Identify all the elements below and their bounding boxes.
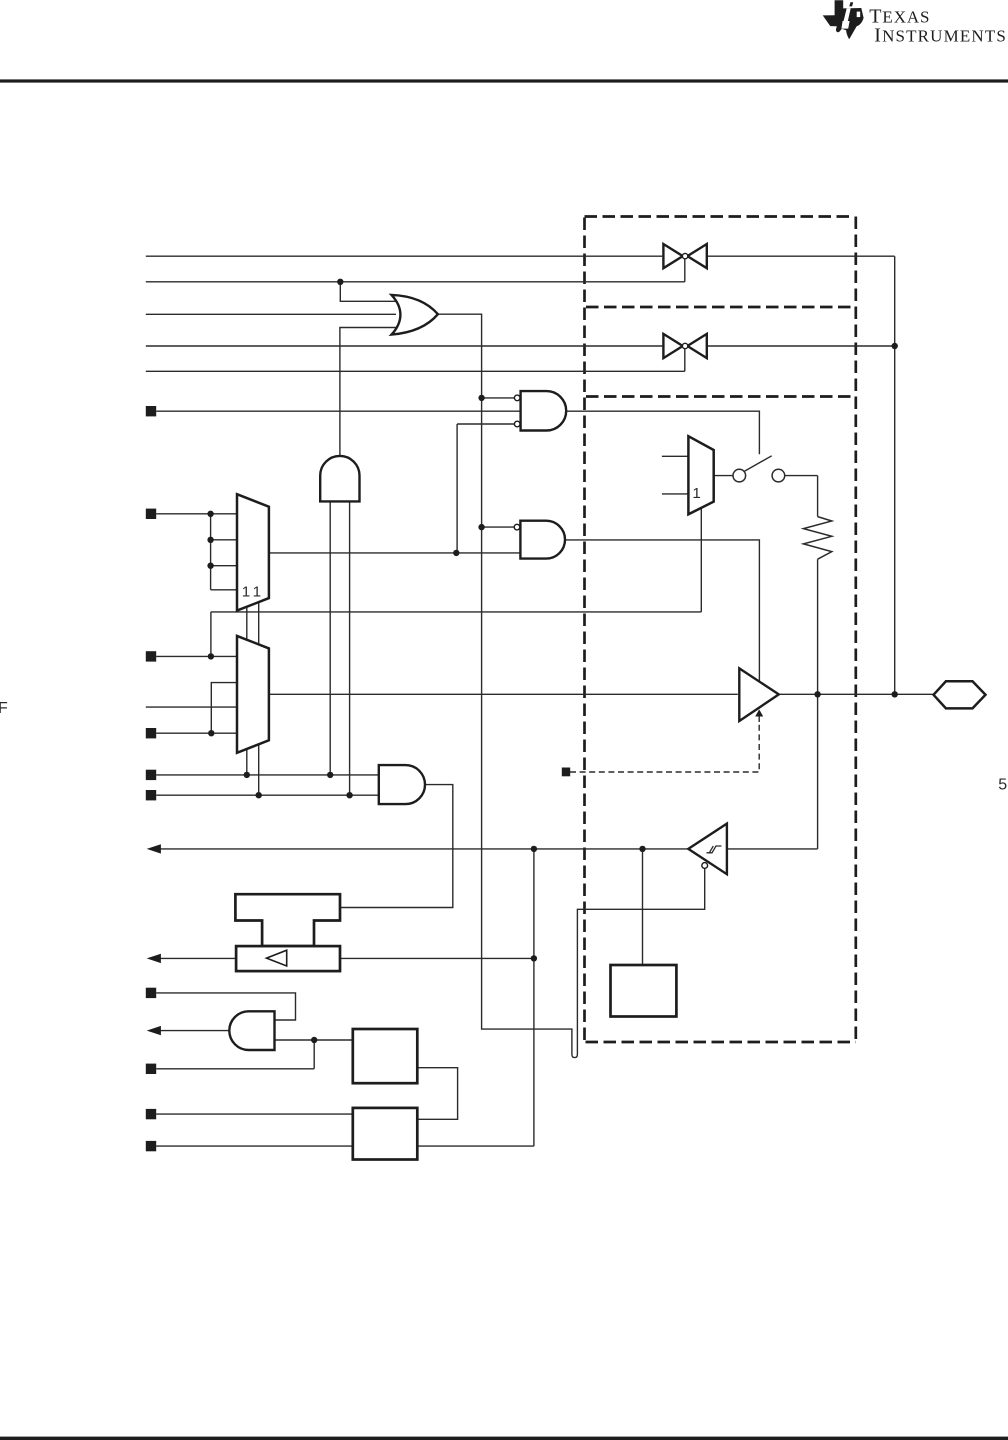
junction dot mux2 in1 <box>208 653 214 659</box>
input pin square y795.2 <box>146 790 156 800</box>
wire TG1 input line <box>146 255 663 257</box>
wire mux2 to pin-line cascade right <box>258 744 260 795</box>
wire smallmux output to switch contact <box>714 475 733 477</box>
NAND gate U1 (3-input, 2 bubbled) <box>521 391 567 430</box>
dashed box bottom edge <box>586 1041 856 1044</box>
svg-text:1: 1 <box>242 583 250 600</box>
wire switch contact2 to resistor <box>785 476 818 517</box>
wire mux select line y611.9 <box>211 508 701 656</box>
junction dot NAND1 upper input <box>478 395 484 401</box>
top horizontal rule <box>0 79 1008 82</box>
wire mux2 input4 from pin <box>156 732 237 734</box>
wire AND3 output to arrow <box>158 1030 229 1032</box>
tall AND gate G2 (rotated up) <box>320 456 359 501</box>
U2 input bubble <box>514 524 520 530</box>
wire NAND1 output to switch <box>566 411 759 454</box>
wire tall-AND input B <box>349 501 351 795</box>
switch contact circle 2 <box>772 469 785 482</box>
wire pin y992.9 to AND3 input1 <box>156 993 295 1020</box>
transmission gate TG1 <box>663 244 706 268</box>
junction dot right bus at pad line <box>892 691 898 697</box>
schmitt hysteresis glyph <box>707 846 722 853</box>
junction dot pinline795 b <box>346 792 352 798</box>
input pin square y513.8 <box>146 509 156 519</box>
wire TG2 input line <box>146 345 663 347</box>
wire schmitt input from resistor bus <box>727 559 817 849</box>
wire mux2 to pin-line cascade left <box>246 749 248 775</box>
triangle box (delay cell) <box>236 946 340 971</box>
slew control arrowhead <box>755 709 763 716</box>
triangle glyph inside delay cell <box>267 950 287 966</box>
wire y958.4 right to vertical bus <box>340 957 534 959</box>
junction dot receive line x533.9 <box>531 846 537 852</box>
wire OR input2 line <box>146 313 396 315</box>
block B1 <box>353 1029 418 1083</box>
bottom horizontal rule <box>0 1437 1008 1440</box>
wire F input line <box>146 706 237 708</box>
wire receive output line y848.9 <box>158 848 688 850</box>
junction dot control tap <box>337 279 343 285</box>
output buffer amp U3 <box>739 668 779 721</box>
junction dot pinline795 a <box>256 792 262 798</box>
wire pin line y774.9 <box>156 774 379 776</box>
wire TG1 output to right drop <box>708 255 895 257</box>
input pin square y774.9 <box>146 770 156 780</box>
wire pin line y795.2 <box>156 794 379 796</box>
wire OR input1 from control line tap <box>340 282 397 302</box>
wire box1-box2 connector <box>417 1068 457 1120</box>
svg-text:F: F <box>0 700 8 717</box>
wire tall-AND output to OR input3 <box>340 328 397 456</box>
dashed box right edge <box>854 217 857 1043</box>
wire NAND1 input1 <box>482 397 515 399</box>
input pin square y1114.1 <box>146 1109 156 1119</box>
OR gate G1 (3-input) <box>392 295 438 335</box>
wire mux1 input1 from pin <box>156 513 237 515</box>
junction dot mux1 chain 1 <box>207 511 213 517</box>
output arrow y958.4 <box>147 954 161 963</box>
wire mux2 bracket input2 <box>211 683 237 734</box>
junction dot pinline775 a <box>244 772 250 778</box>
svg-text:5: 5 <box>998 776 1007 793</box>
wire TG2 gate control line <box>146 349 685 372</box>
wire smallmux input stubs <box>662 456 689 494</box>
wire small box stem <box>642 849 644 965</box>
wire mux1-mux2 cascade right <box>258 602 260 644</box>
mux M1 parallelogram <box>237 494 269 610</box>
junction dot NAND2 upper input <box>478 524 484 530</box>
wire buffer output to pad <box>780 693 934 695</box>
input pin square y992.9 <box>146 988 156 998</box>
wire mux2 input1 from pin <box>156 655 237 657</box>
wire mux2 output to buffer input <box>269 693 738 695</box>
wire mux1 input chain <box>211 514 237 590</box>
wire switch lever <box>744 456 772 472</box>
junction dot mux1 chain 2 <box>207 537 213 543</box>
buffer slew control dashed wire <box>570 716 759 772</box>
slew control source square <box>562 768 570 777</box>
T-block (driver symbol) <box>235 894 340 946</box>
wire NAND1 input3 <box>457 424 514 553</box>
junction dot NAND2 lower input <box>453 550 459 556</box>
wire OR output long vertical to schmitt-enable <box>438 314 705 1057</box>
block B3 (in dashed box) <box>611 965 677 1017</box>
transmission gate TG2 <box>663 334 706 358</box>
dashed box top edge <box>585 215 854 218</box>
wire mux1-mux2 cascade left <box>246 607 248 640</box>
junction dot TG2 output join <box>892 343 898 349</box>
resistor R1 zigzag <box>803 517 831 560</box>
input pin square y1068.8 <box>146 1064 156 1074</box>
AND gate G4 (left-pointing) <box>229 1011 274 1050</box>
junction dot schmitt output x642.5 <box>639 846 645 852</box>
schmitt trigger receiver U4 <box>688 824 727 875</box>
wire NAND2 input1 <box>482 526 515 528</box>
svg-text:1: 1 <box>692 485 700 502</box>
junction dot mux1 chain 3 <box>207 563 213 569</box>
input pin square y1146.1 <box>146 1141 156 1151</box>
wire TG2 output <box>708 345 895 347</box>
schmitt enable bubble <box>702 863 708 869</box>
svg-text:INSTRUMENTS: INSTRUMENTS <box>874 25 1007 47</box>
input pin square y411 <box>146 406 156 416</box>
junction dot AND3 input2 <box>311 1037 317 1043</box>
wire right vertical bus x894.7 <box>894 256 896 694</box>
mux M2 parallelogram <box>237 636 269 753</box>
AND gate G3 <box>379 765 425 804</box>
wire NAND1 middle input from pin <box>156 410 520 412</box>
input pin square y656.4 <box>146 651 156 661</box>
NAND gate U2 (2-input, 1 bubbled) <box>520 521 565 559</box>
dashed divider y396.5 <box>586 395 851 398</box>
wire pin line y1146.1 to box2 <box>156 1145 353 1147</box>
output arrow y1030.6 <box>147 1026 161 1035</box>
junction dot pinline775 b <box>327 772 333 778</box>
wire tall-AND input A <box>329 501 331 775</box>
junction dot y958.4 bus <box>531 955 537 961</box>
wire AND3 input2 / box1 input <box>156 1040 353 1069</box>
wire output line y958.4 left <box>158 957 236 959</box>
wire NAND2 output to buffer enable <box>565 540 759 681</box>
wire pin line y1114.1 to box2 <box>156 1113 353 1115</box>
block B2 <box>353 1108 418 1160</box>
wire AND2 output to T-block <box>340 785 453 908</box>
U1 input bubble top <box>514 395 520 401</box>
wire box2 output to vertical bus x533.9 <box>417 849 534 1146</box>
output arrow y848.9 <box>147 844 161 853</box>
U1 input bubble bottom <box>514 421 520 427</box>
svg-text:1: 1 <box>253 583 261 600</box>
TI logo Texas-map emblem <box>823 0 864 39</box>
mux M3 small parallelogram <box>688 436 713 514</box>
pad hexagon P1 <box>934 681 986 708</box>
dashed divider y307 <box>586 306 851 309</box>
junction dot resistor at pad line <box>814 691 820 697</box>
wire mux1 output to NAND2 input <box>269 552 521 554</box>
junction dot mux2 in4 <box>208 730 214 736</box>
dashed box left edge <box>583 218 586 1043</box>
input pin square y733.2 <box>146 728 156 738</box>
wire TG1 gate control line <box>146 259 685 282</box>
switch contact circle 1 <box>733 469 746 482</box>
